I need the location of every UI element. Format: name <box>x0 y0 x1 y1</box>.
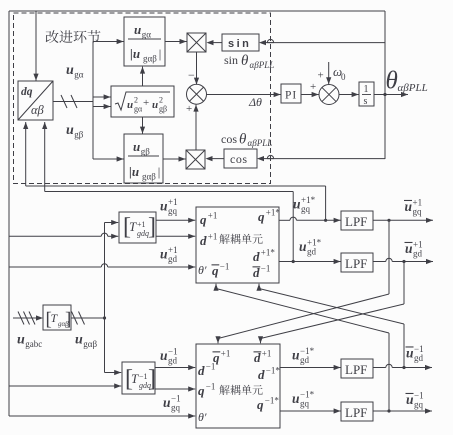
svg-text:u: u <box>133 139 140 154</box>
svg-text:gαβ: gαβ <box>83 339 97 349</box>
svg-text:−1: −1 <box>414 344 424 354</box>
svg-text:gαβ: gαβ <box>143 54 157 64</box>
svg-text:u: u <box>160 348 168 363</box>
svg-text:q: q <box>200 212 207 227</box>
svg-text:dq: dq <box>21 86 33 98</box>
svg-text:u: u <box>160 199 168 214</box>
svg-text:q: q <box>198 383 205 398</box>
svg-text:αβPLL: αβPLL <box>398 82 428 94</box>
svg-text:0: 0 <box>341 72 346 82</box>
svg-text:cos: cos <box>221 132 237 146</box>
svg-text:−1*: −1* <box>300 346 315 356</box>
svg-text:gd: gd <box>413 249 423 259</box>
svg-text:u: u <box>152 99 158 111</box>
svg-text:+1: +1 <box>221 349 231 359</box>
svg-text:d: d <box>253 249 260 264</box>
svg-text:|u: |u <box>130 46 140 61</box>
svg-text:u: u <box>17 333 25 348</box>
svg-text:−1*: −1* <box>265 396 280 406</box>
svg-text:+: + <box>318 70 324 82</box>
svg-text:LPF: LPF <box>345 256 367 271</box>
svg-text:−1: −1 <box>261 264 271 274</box>
svg-text:u: u <box>293 197 301 212</box>
svg-text:−1: −1 <box>206 382 216 392</box>
svg-text:+1*: +1* <box>301 195 316 205</box>
svg-text:gd: gd <box>307 247 317 257</box>
svg-text:LPF: LPF <box>345 405 367 420</box>
svg-text:+1: +1 <box>208 232 218 242</box>
svg-text:αβPLL: αβPLL <box>250 60 275 70</box>
svg-text:|: | <box>157 164 161 179</box>
svg-text:sin: sin <box>224 53 238 67</box>
svg-text:gd: gd <box>300 355 310 365</box>
svg-text:LPF: LPF <box>345 214 367 229</box>
svg-text:gabc: gabc <box>25 339 42 349</box>
svg-text:+1: +1 <box>168 245 178 255</box>
svg-text:u: u <box>66 63 74 78</box>
svg-text:|: | <box>158 46 162 61</box>
svg-text:−1: −1 <box>414 391 424 401</box>
svg-text:gq: gq <box>413 207 423 217</box>
svg-text:gq: gq <box>300 399 310 409</box>
svg-text:θ: θ <box>239 132 247 148</box>
svg-text:gq: gq <box>168 206 178 216</box>
svg-text:gq: gq <box>171 403 181 413</box>
svg-text:u: u <box>299 239 307 254</box>
svg-text:]: ] <box>65 309 71 330</box>
svg-text:gq: gq <box>301 204 311 214</box>
svg-text:u: u <box>163 395 171 410</box>
svg-text:]: ] <box>148 366 156 392</box>
svg-text:+: + <box>310 81 316 93</box>
svg-text:−1*: −1* <box>266 366 281 376</box>
svg-text:gd: gd <box>168 254 178 264</box>
svg-text:u: u <box>127 99 133 111</box>
svg-text:gβ: gβ <box>74 130 84 140</box>
svg-text:s: s <box>364 96 368 107</box>
svg-text:gα: gα <box>142 30 152 40</box>
svg-text:+1: +1 <box>208 211 218 221</box>
svg-text:d: d <box>258 367 265 382</box>
svg-text:u: u <box>406 392 414 407</box>
svg-text:d: d <box>200 233 207 248</box>
svg-text:+1: +1 <box>262 349 272 359</box>
svg-text:−1: −1 <box>139 372 148 381</box>
svg-text:θ′: θ′ <box>198 263 207 277</box>
svg-text:u: u <box>160 247 168 262</box>
svg-text:gαβ: gαβ <box>142 172 156 182</box>
svg-text:u: u <box>292 348 300 363</box>
svg-text:+: + <box>143 97 149 109</box>
svg-text:−: − <box>188 68 195 82</box>
svg-text:+1: +1 <box>413 198 423 208</box>
svg-text:cos: cos <box>230 152 248 166</box>
svg-text:PI: PI <box>285 90 297 102</box>
svg-text:αβ: αβ <box>31 103 45 117</box>
svg-text:+1*: +1* <box>307 238 322 248</box>
svg-text:+1*: +1* <box>266 208 281 218</box>
svg-text:2: 2 <box>134 96 138 105</box>
svg-text:]: ] <box>148 214 156 240</box>
svg-text:+1*: +1* <box>261 248 276 258</box>
svg-text:q: q <box>258 209 265 224</box>
svg-text:θ: θ <box>386 68 398 95</box>
svg-text:−1: −1 <box>171 394 181 404</box>
svg-text:gα: gα <box>134 105 143 114</box>
svg-text:LPF: LPF <box>345 362 367 377</box>
svg-text:gα: gα <box>74 70 84 80</box>
svg-text:1: 1 <box>364 84 369 95</box>
svg-text:sin: sin <box>228 38 251 50</box>
svg-text:T: T <box>129 219 137 234</box>
svg-text:u: u <box>75 333 83 348</box>
svg-text:gd: gd <box>414 353 424 363</box>
svg-text:αβPLL: αβPLL <box>248 138 273 148</box>
svg-text:+1: +1 <box>168 197 178 207</box>
svg-text:u: u <box>292 391 300 406</box>
svg-text:2: 2 <box>159 96 163 105</box>
svg-text:gq: gq <box>414 400 424 410</box>
svg-text:−1: −1 <box>168 347 178 357</box>
svg-text:+1: +1 <box>413 240 423 250</box>
svg-text:−1: −1 <box>220 262 230 272</box>
svg-text:gβ: gβ <box>159 105 167 114</box>
svg-text:+1: +1 <box>137 220 146 229</box>
svg-text:θ′: θ′ <box>198 410 207 424</box>
svg-text:d: d <box>198 363 205 378</box>
svg-text:u: u <box>405 241 413 256</box>
svg-text:gβ: gβ <box>141 147 151 157</box>
svg-text:q: q <box>257 397 264 412</box>
svg-text:u: u <box>406 346 414 361</box>
svg-text:gd: gd <box>168 356 178 366</box>
svg-text:u: u <box>66 123 74 138</box>
svg-text:+: + <box>186 103 192 115</box>
svg-text:u: u <box>405 199 413 214</box>
svg-text:u: u <box>134 22 141 37</box>
svg-text:θ: θ <box>241 53 249 69</box>
svg-text:−1*: −1* <box>300 390 315 400</box>
svg-text:T: T <box>131 371 139 386</box>
svg-text:|u: |u <box>129 164 139 179</box>
svg-text:Δθ: Δθ <box>248 95 262 109</box>
